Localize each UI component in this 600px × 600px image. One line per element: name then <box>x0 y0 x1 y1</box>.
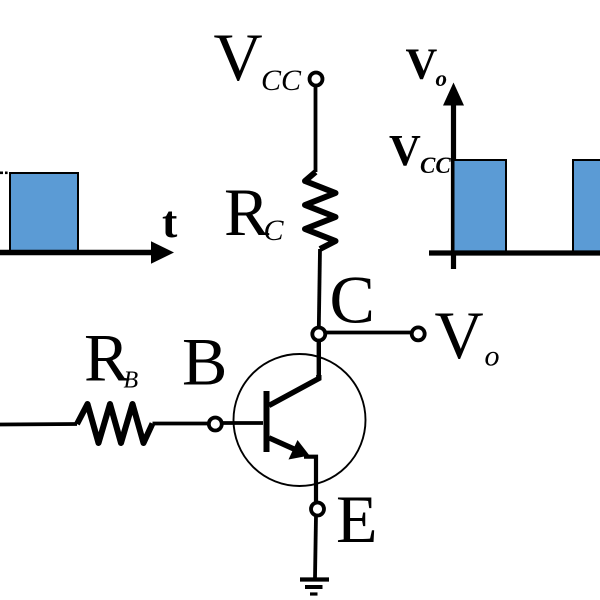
transistor Q1 collector lead <box>269 375 319 406</box>
svg-text:B: B <box>124 368 139 394</box>
resistor RB <box>77 404 153 443</box>
terminal VCC <box>310 73 323 86</box>
transistor Q1 base bar <box>264 391 270 452</box>
terminal Vo <box>412 327 425 340</box>
wire node B to base bar <box>222 421 263 425</box>
svg-text:E: E <box>336 481 378 557</box>
svg-text:o: o <box>485 340 500 373</box>
wire RB to node B <box>153 422 210 426</box>
svg-text:C: C <box>330 262 375 338</box>
output voltage axis (vertical) <box>451 100 456 269</box>
svg-text:o: o <box>436 66 448 91</box>
svg-text:B: B <box>182 324 227 400</box>
svg-text:V: V <box>389 126 421 175</box>
wire node C to transistor collector <box>317 341 321 377</box>
output pulse 1 (blue) <box>454 160 507 252</box>
wire input to RB <box>0 422 77 426</box>
input time axis <box>0 250 153 255</box>
svg-text:V: V <box>406 40 438 89</box>
svg-text:V: V <box>214 19 263 95</box>
node C junction <box>312 328 325 341</box>
svg-text:t: t <box>162 196 178 247</box>
wire node C to Vo terminal <box>326 331 411 335</box>
output time axis <box>429 250 600 255</box>
output axis arrowhead <box>443 83 464 106</box>
output pulse 2 (blue, clipped) <box>573 160 600 252</box>
wire emitter arrow to node E <box>304 457 316 503</box>
wire node E to ground <box>315 516 316 579</box>
svg-text:CC: CC <box>420 153 451 178</box>
input pulse dashed level mark <box>0 172 8 175</box>
svg-text:CC: CC <box>261 64 302 97</box>
svg-text:C: C <box>264 214 285 247</box>
node B terminal <box>209 418 222 431</box>
input axis arrowhead <box>151 241 174 264</box>
ground symbol <box>300 580 329 595</box>
svg-text:V: V <box>435 297 484 373</box>
transistor Q1 circle <box>234 354 366 486</box>
wire RC to collector node <box>319 249 320 328</box>
resistor RC <box>305 172 336 249</box>
wire VCC to RC <box>314 87 318 173</box>
node E terminal <box>311 503 324 516</box>
transistor Q1 emitter lead <box>269 438 304 454</box>
transistor Q1 emitter arrowhead <box>289 440 310 460</box>
input pulse (blue square wave) <box>10 173 78 252</box>
